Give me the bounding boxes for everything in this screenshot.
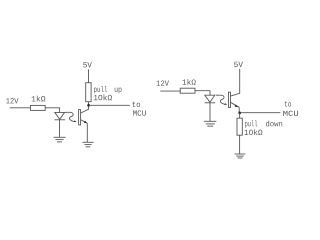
resistor R3 1k (right input series) [180,88,195,93]
wire 5V to Q2 collector [231,69,240,96]
wire R4 to ground [239,135,241,154]
wire node B to R4 pull-down [239,113,241,118]
phototransistor Q2 base plate (right) [229,92,231,107]
ground (Q1 emitter) [82,142,93,147]
label to (right output) [285,101,291,106]
resistor R1 1k (left input series) [30,105,45,110]
value label 1kΩ for R3 [183,79,196,85]
Q1 emitter with arrow [81,120,88,124]
optical arrow from D2 to Q2 [216,95,227,105]
value label 10kΩ for R2 [94,94,112,100]
ground (R4 pull-down) [235,154,246,158]
wire Q2 emitter to node B [238,107,240,113]
Q1 collector wire to node A [81,107,89,113]
net 5V label (left) [83,62,92,67]
phototransistor Q1 base plate (left) [79,110,81,125]
label pull down (R4) word pull [245,121,257,128]
wire node A to MCU (left) [89,104,130,106]
LED D1 (optocoupler emitter diode, left) [54,112,65,119]
net 12V label (left) [6,98,18,103]
resistor R4 pull-down 10k (right) [237,118,242,135]
label pull down (R4) word down [266,121,282,127]
label pull up (R2) word pull [94,86,107,93]
label pull up (R2) word up [115,88,122,94]
wire 12V input to R1 (left) [10,107,31,109]
junction node A (left output) [87,104,90,107]
net 12V label (right) [157,80,169,85]
ground (right LED cathode) [204,121,216,126]
wire node B to MCU (right) [240,112,281,114]
optical arrow from D1 to Q1 [65,112,76,122]
LED D2 (optocoupler emitter diode, right) [205,95,216,103]
wire D1 cathode to ground [59,120,61,137]
wire Q1 emitter to ground [86,123,88,142]
wire 5V to R2 pull-up [88,69,90,82]
junction node B (right output) [238,112,241,115]
wire R1 to LED D1 anode [45,108,59,113]
net 5V label (right) [234,62,243,67]
Q2 emitter with arrow [231,102,240,107]
value label 1kΩ for R1 [32,96,46,102]
wire R3 to LED D2 anode [195,91,210,96]
ground (left LED cathode) [54,137,66,142]
resistor R2 pull-up 10k (left) [86,83,91,102]
value label 10kΩ for R4 [245,129,263,135]
label to (left output) [132,102,140,107]
label MCU (left output) [133,110,146,115]
wire 12V input to R3 (right) [160,90,180,92]
wire D2 cathode to ground [209,103,211,121]
wire R2 bottom to node A [88,102,90,106]
label MCU (right output) [283,111,298,116]
